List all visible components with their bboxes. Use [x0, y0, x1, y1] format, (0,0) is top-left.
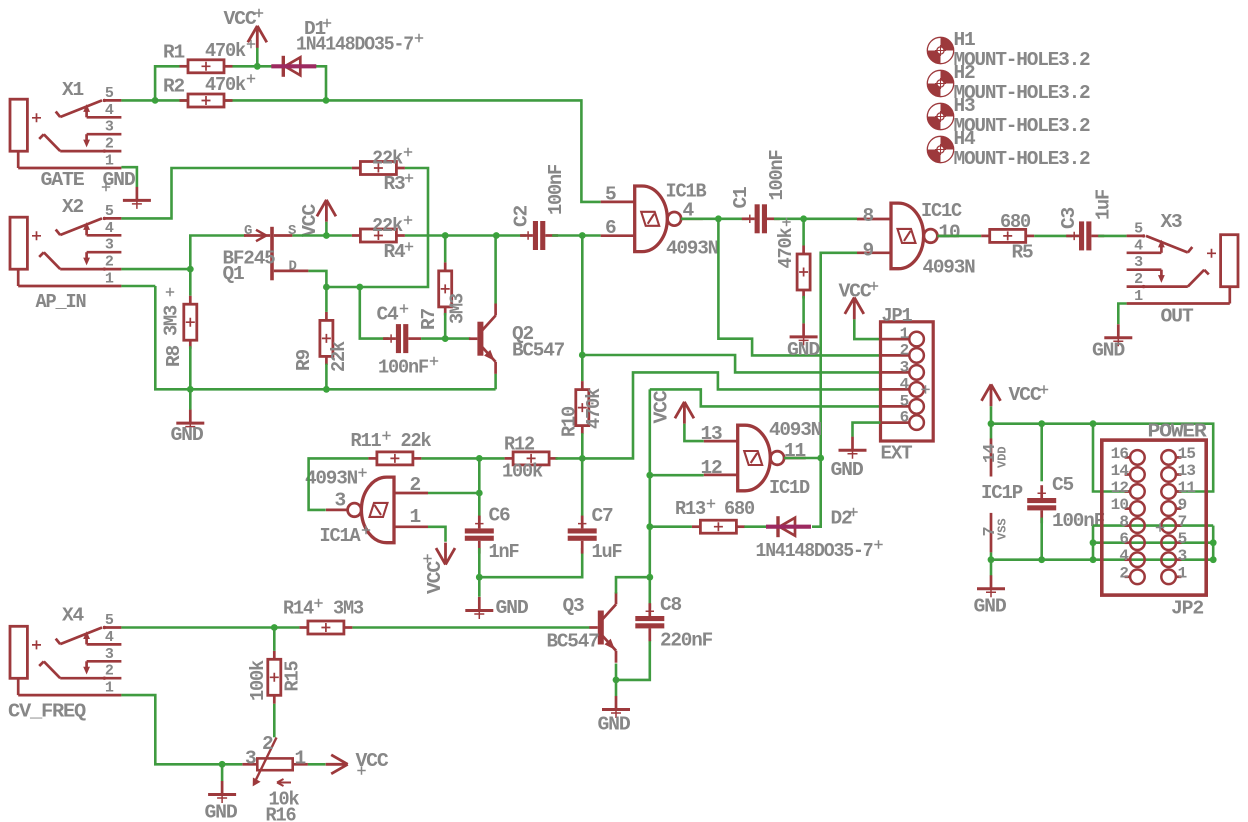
- ground below JP1 pin6 (EXT): [851, 437, 854, 451]
- pin 8 JP2: [1125, 524, 1131, 527]
- resistor R7: [444, 262, 447, 271]
- wire VCC down to rail: [990, 406, 993, 423]
- svg-text:100nF: 100nF: [1052, 510, 1104, 532]
- svg-text:2: 2: [1119, 564, 1128, 582]
- power symbol VCC (IC1A pin1, pointing down): [436, 543, 455, 565]
- svg-text:GND: GND: [1092, 340, 1124, 362]
- ground below R6: [802, 323, 805, 337]
- svg-text:4: 4: [105, 102, 114, 119]
- wire to JP1 pin5: [650, 389, 881, 406]
- origin cross R3 value: [404, 148, 412, 156]
- pin 11 JP2: [1176, 490, 1181, 493]
- svg-text:470k: 470k: [205, 40, 246, 62]
- wire IC1A pin2 net: [428, 492, 479, 495]
- junction C4/R7/base: [442, 335, 449, 342]
- connector X2 body and contacts: [10, 217, 27, 269]
- junction node 287/C4 branch: [356, 284, 363, 291]
- wire Q2 emitter to rail: [494, 374, 497, 389]
- wire GND rail through JP2 pins 4-3: [991, 558, 1213, 561]
- wire Q1 drain down: [308, 271, 326, 287]
- svg-text:220nF: 220nF: [660, 630, 712, 652]
- pin 7 JP2: [1176, 524, 1181, 527]
- power symbol VCC (IC1P): [982, 384, 1001, 406]
- pin 1 JP1: [881, 338, 910, 341]
- svg-text:8: 8: [863, 205, 875, 227]
- svg-text:470k: 470k: [205, 74, 246, 96]
- resistor R1: [180, 65, 189, 68]
- origin cross IC1A value: [358, 468, 366, 476]
- connector X1 body and contacts: [10, 99, 27, 151]
- origin cross VCC JP1: [870, 282, 878, 290]
- svg-text:13: 13: [1178, 462, 1196, 480]
- transistor Q3 (BC547): [598, 611, 604, 645]
- junction VCC/source/R4: [323, 232, 330, 239]
- svg-text:JP1: JP1: [882, 305, 912, 327]
- mount hole H3: [941, 103, 954, 116]
- svg-text:16: 16: [1111, 445, 1129, 463]
- wire JP1 pin6 to GND: [853, 423, 881, 437]
- wire X4.5 to R14: [121, 626, 299, 629]
- svg-text:1: 1: [1134, 288, 1143, 305]
- svg-text:100nF: 100nF: [766, 150, 788, 200]
- wire R15 to R16 wiper: [273, 704, 276, 738]
- svg-text:5: 5: [1134, 220, 1143, 237]
- nand gate IC1A (4093N, mirrored): [361, 477, 394, 543]
- svg-text:1N4148DO35-7: 1N4148DO35-7: [296, 34, 413, 56]
- origin cross VCC IC1P: [1040, 385, 1048, 393]
- wire X2.5 to R3: [121, 168, 352, 218]
- junction rail/R9: [323, 386, 330, 393]
- wire IC1D output to pin9 net: [784, 457, 821, 460]
- wire R16 pin1 to VCC: [308, 763, 326, 766]
- svg-text:100nF: 100nF: [545, 165, 567, 215]
- svg-text:R12: R12: [504, 434, 534, 456]
- svg-text:GND: GND: [787, 339, 819, 361]
- capacitor C6: [478, 516, 481, 529]
- svg-text:680: 680: [1000, 211, 1030, 233]
- svg-text:C1: C1: [730, 187, 752, 208]
- wire to GND symbol: [221, 764, 224, 781]
- origin cross VCC IC1A: [423, 554, 431, 562]
- svg-text:22k: 22k: [328, 341, 350, 372]
- wire to JP2 pin12: [1093, 424, 1131, 492]
- ground below X3: [1117, 324, 1120, 338]
- svg-text:6: 6: [900, 409, 910, 427]
- junction C1/R6: [800, 215, 807, 222]
- svg-text:5: 5: [605, 184, 617, 206]
- pin 2 JP1: [881, 354, 910, 357]
- wire GND rail to C7: [479, 548, 582, 577]
- junction X1.5/R1/R2: [152, 97, 159, 104]
- wire to JP1 pin3: [582, 355, 880, 372]
- svg-text:22k: 22k: [372, 215, 403, 237]
- svg-text:R7: R7: [418, 309, 440, 330]
- pin 5 JP2: [1176, 541, 1181, 544]
- wire IC1C out to R5: [937, 235, 981, 238]
- svg-text:C6: C6: [489, 505, 510, 527]
- wire VCC to source row: [325, 222, 328, 236]
- svg-text:3: 3: [105, 646, 114, 663]
- wire X2.2 to junction: [121, 268, 190, 271]
- pin 4 JP1: [881, 388, 910, 391]
- wire to Q1 gate: [190, 236, 245, 270]
- capacitor C3: [1066, 235, 1079, 238]
- svg-text:EXT: EXT: [881, 443, 913, 465]
- wire X1.5 to junction: [121, 99, 155, 102]
- junction IC1B out / JP1.2 branch: [715, 215, 722, 222]
- svg-text:CV_FREQ: CV_FREQ: [8, 701, 87, 723]
- origin cross R14 name: [314, 599, 322, 607]
- svg-text:VCC: VCC: [224, 8, 258, 30]
- junction JP2 left GND branch: [1090, 556, 1097, 563]
- svg-text:C2: C2: [511, 206, 533, 227]
- svg-text:R13: R13: [675, 498, 705, 520]
- svg-text:IC1D: IC1D: [769, 477, 809, 499]
- svg-text:3: 3: [1178, 547, 1187, 565]
- wire C6 to GND rail: [478, 548, 481, 577]
- svg-text:1: 1: [295, 748, 307, 770]
- svg-text:POWER: POWER: [1148, 421, 1208, 443]
- svg-text:IC1A: IC1A: [320, 525, 361, 547]
- svg-text:C3: C3: [1058, 208, 1080, 229]
- wire R10 to R12 row: [581, 433, 584, 458]
- wire X4.1 to R16 pin3: [121, 695, 242, 764]
- origin cross R4 value: [404, 216, 412, 224]
- junction C5 bottom: [1038, 556, 1045, 563]
- svg-text:R5: R5: [1012, 242, 1033, 264]
- nand gate IC1B (4093N): [635, 186, 668, 252]
- wire R7 to C4 row: [444, 313, 447, 339]
- svg-text:X3: X3: [1161, 211, 1182, 233]
- junction JP2 pin5 row: [1210, 539, 1217, 546]
- power symbol VCC (top): [248, 26, 267, 48]
- resistor R9: [325, 312, 328, 321]
- origin cross D2: [849, 508, 857, 516]
- wire R6 to GND: [802, 296, 805, 324]
- svg-text:4093N: 4093N: [305, 468, 357, 490]
- origin cross R1 value: [247, 40, 255, 48]
- pin 3 JP1: [881, 371, 910, 374]
- svg-text:GND: GND: [974, 596, 1006, 618]
- wire D1 to R2 row: [316, 66, 326, 100]
- svg-text:5: 5: [105, 612, 114, 629]
- origin cross R2 value: [247, 74, 255, 82]
- junction R11/R12/C6: [476, 455, 483, 462]
- wire VSS pin to rail: [990, 552, 993, 559]
- resistor R14: [299, 626, 308, 629]
- junction X4.1/GND/R16: [219, 761, 226, 768]
- svg-text:VCC: VCC: [299, 203, 321, 237]
- capacitor C8: [648, 603, 651, 616]
- origin cross R8 value: [166, 288, 174, 296]
- wire C3 to X3: [1098, 235, 1126, 238]
- wire C5 bottom: [1040, 518, 1043, 560]
- power symbol VCC (R16, pointing right): [326, 755, 348, 774]
- resistor R6: [802, 246, 805, 255]
- origin cross C4 value: [430, 357, 438, 365]
- svg-text:4093N: 4093N: [666, 238, 718, 260]
- wire node 287 down to C4: [360, 287, 389, 339]
- svg-text:H1: H1: [954, 29, 975, 51]
- junction R13: [646, 523, 653, 530]
- pin 14 JP2: [1125, 473, 1131, 476]
- origin cross VCC R16: [357, 766, 365, 774]
- power symbol VCC (Q1 source): [317, 200, 336, 222]
- wire to JP1 pin4: [582, 372, 880, 458]
- svg-text:10: 10: [1111, 496, 1129, 514]
- wire R12 junction down to C7: [581, 458, 584, 521]
- svg-text:3M3: 3M3: [333, 598, 363, 620]
- wire R12 to junction: [556, 457, 583, 460]
- pin 2 JP2: [1125, 575, 1131, 578]
- svg-text:470k: 470k: [775, 227, 797, 268]
- svg-text:3M3: 3M3: [161, 306, 183, 336]
- wire Q3 collector to C8 junction: [616, 577, 650, 593]
- svg-text:R9: R9: [293, 350, 315, 371]
- wire X2.1 ground rail: [155, 286, 495, 389]
- origin cross JP2: [1156, 523, 1164, 531]
- svg-text:1uF: 1uF: [1093, 190, 1115, 220]
- svg-text:1: 1: [105, 153, 114, 170]
- wire up to R1: [155, 66, 179, 100]
- svg-text:100k: 100k: [247, 660, 269, 701]
- svg-text:GND: GND: [598, 714, 630, 736]
- svg-text:3M3: 3M3: [447, 294, 469, 324]
- svg-text:X4: X4: [62, 605, 84, 627]
- wire R9 to ground rail: [325, 364, 328, 390]
- svg-text:IC1C: IC1C: [921, 200, 962, 222]
- wire IC1B output to C1: [681, 218, 748, 221]
- pin 9 JP2: [1176, 507, 1181, 510]
- origin cross VCC top: [255, 9, 263, 17]
- ground below X2 rail: [189, 410, 192, 424]
- svg-text:5: 5: [1178, 530, 1187, 548]
- origin cross JP1: [921, 385, 929, 393]
- resistor R5: [981, 235, 990, 238]
- resistor R12: [505, 457, 513, 460]
- junction D1/R2 row: [323, 97, 330, 104]
- junction X2.2/R8/gate: [187, 266, 194, 273]
- pin 13 JP2: [1176, 473, 1181, 476]
- wire junction down to C8: [648, 577, 651, 609]
- junction C2 out / feedback: [579, 232, 586, 239]
- origin cross D1 value: [415, 34, 423, 42]
- svg-text:13: 13: [701, 423, 722, 445]
- wire to GND symbol: [615, 680, 618, 696]
- svg-text:100k: 100k: [502, 461, 543, 483]
- svg-text:2: 2: [262, 733, 274, 755]
- wire Q3 emitter down: [615, 664, 618, 680]
- svg-text:GND: GND: [496, 597, 528, 619]
- mount hole H4: [941, 136, 954, 149]
- pin 4 JP2: [1125, 558, 1131, 561]
- svg-text:1nF: 1nF: [489, 541, 519, 563]
- svg-text:X1: X1: [62, 79, 83, 101]
- ground below Q3: [615, 696, 618, 710]
- svg-text:4: 4: [1119, 547, 1129, 565]
- svg-text:R10: R10: [559, 407, 581, 437]
- svg-text:3: 3: [900, 358, 910, 376]
- svg-text:R15: R15: [282, 661, 304, 691]
- wire R13 to D2: [744, 525, 766, 528]
- svg-text:4: 4: [1134, 237, 1143, 254]
- junction R10/R12/JP1.4: [579, 455, 586, 462]
- svg-text:4093N: 4093N: [923, 257, 975, 279]
- wire VCC rail to JP2 pin11: [991, 424, 1213, 492]
- svg-text:X2: X2: [62, 196, 83, 218]
- wire R8 to ground rail: [189, 346, 192, 389]
- svg-text:C5: C5: [1052, 474, 1073, 496]
- wire IC1D.12/R13 vertical: [648, 389, 651, 577]
- svg-text:2: 2: [410, 474, 422, 496]
- wire junction to R13: [650, 525, 692, 528]
- svg-text:3: 3: [245, 748, 257, 770]
- svg-text:C8: C8: [660, 594, 681, 616]
- capacitor C7: [581, 516, 584, 529]
- connector JP2 box: [1102, 440, 1206, 595]
- svg-text:4: 4: [900, 375, 910, 393]
- mount hole H1: [941, 37, 954, 50]
- svg-text:R14: R14: [283, 598, 314, 620]
- nand gate IC1C (4093N): [891, 203, 924, 269]
- ground below IC1P: [990, 575, 993, 589]
- svg-text:3: 3: [1134, 254, 1143, 271]
- wire C2 to IC1B pin6: [552, 234, 601, 237]
- power symbol VCC (JP1): [845, 297, 864, 319]
- svg-text:7: 7: [1178, 513, 1187, 531]
- wire IC1B out to JP1 pin2: [718, 219, 880, 356]
- wire C1 to IC1C pin8: [774, 218, 857, 221]
- wire R1 to D1: [233, 65, 273, 68]
- wire R4 row to R7: [444, 236, 447, 263]
- capacitor C4: [383, 337, 396, 340]
- svg-text:D: D: [289, 259, 297, 275]
- svg-text:100nF: 100nF: [378, 357, 428, 379]
- svg-text:4093N: 4093N: [769, 419, 821, 441]
- svg-text:H4: H4: [954, 128, 976, 150]
- svg-text:IC1P: IC1P: [981, 482, 1022, 504]
- svg-text:R2: R2: [163, 76, 184, 98]
- connector JP1 box: [881, 322, 934, 441]
- svg-text:8: 8: [1119, 513, 1128, 531]
- wire X3.1 to GND: [1118, 304, 1126, 325]
- junction X4.5/R14/R15: [271, 624, 278, 631]
- wire rail to VDD pin: [990, 424, 993, 439]
- svg-text:12: 12: [1111, 479, 1129, 497]
- svg-text:22k: 22k: [372, 148, 403, 170]
- svg-text:1: 1: [410, 506, 422, 528]
- svg-text:1: 1: [1178, 564, 1187, 582]
- svg-text:3: 3: [105, 119, 114, 136]
- wire rail to GND symbol: [189, 389, 192, 410]
- transistor Q2 (BC547): [477, 322, 483, 356]
- power part IC1P VDD pin: [990, 439, 993, 477]
- origin cross R13 name: [707, 499, 715, 507]
- junction Q2 collector: [493, 232, 500, 239]
- svg-text:2: 2: [105, 136, 114, 153]
- svg-text:9: 9: [1178, 496, 1187, 514]
- junction VSS/GND rail: [988, 556, 995, 563]
- wire to R9 top: [325, 287, 328, 312]
- connector X4 body and contacts: [10, 626, 27, 678]
- junction drain/R9: [323, 284, 330, 291]
- wire junction to R15: [273, 628, 276, 651]
- origin cross D1: [323, 19, 331, 27]
- junction JP2 pin6 row: [1090, 539, 1097, 546]
- junction C8/Q3 collector: [646, 574, 653, 581]
- junction pin9 net / IC1D output: [817, 455, 824, 462]
- svg-text:VSS: VSS: [996, 518, 1010, 540]
- origin cross R3 name: [405, 174, 413, 182]
- capacitor C2: [520, 234, 533, 237]
- resistor R3: [352, 167, 361, 170]
- mount hole H2: [941, 70, 954, 83]
- svg-text:12: 12: [701, 457, 722, 479]
- pin 6 JP1: [881, 421, 910, 424]
- junction JP2 pin12 branch: [1090, 420, 1097, 427]
- wire JP2 pins 7/5/3 branch: [1212, 526, 1215, 560]
- wire C2 node down: [581, 236, 584, 356]
- svg-text:1uF: 1uF: [592, 541, 622, 563]
- svg-text:GATE: GATE: [41, 169, 85, 191]
- wire IC1A pin1 to VCC: [428, 527, 446, 542]
- svg-text:R11: R11: [351, 430, 381, 452]
- svg-text:R1: R1: [163, 42, 184, 64]
- origin cross D2 value: [874, 540, 882, 548]
- resistor R10: [581, 381, 584, 390]
- junction pin2/C6 branch: [476, 490, 483, 497]
- svg-text:15: 15: [1178, 445, 1196, 463]
- resistor R11: [368, 457, 377, 460]
- svg-text:2: 2: [900, 341, 910, 359]
- pin 1 JP2: [1176, 575, 1181, 578]
- wire down to GND symbol: [478, 577, 481, 597]
- junction VCC rail: [988, 420, 995, 427]
- origin cross R4 name: [405, 242, 413, 250]
- junction R1/D1/VCC: [254, 63, 261, 70]
- ground below X1: [136, 187, 139, 201]
- svg-text:R16: R16: [266, 805, 296, 822]
- svg-text:Q3: Q3: [563, 595, 584, 617]
- wire JP2 pins 8-7 row: [1093, 524, 1213, 527]
- svg-text:1N4148DO35-7: 1N4148DO35-7: [756, 540, 873, 562]
- capacitor C5: [1040, 485, 1043, 498]
- svg-text:GND: GND: [831, 459, 863, 481]
- svg-text:Q1: Q1: [223, 263, 244, 285]
- svg-text:6: 6: [1119, 530, 1128, 548]
- svg-text:470k: 470k: [583, 388, 605, 429]
- svg-text:14: 14: [1111, 462, 1130, 480]
- capacitor C1: [742, 217, 755, 220]
- svg-text:11: 11: [1178, 479, 1196, 497]
- wire to GND symbol: [990, 560, 993, 576]
- svg-text:JP2: JP2: [1171, 598, 1203, 620]
- wire JP2 pins 6-5 row: [1093, 541, 1213, 544]
- wire R5 to C3: [1034, 235, 1072, 238]
- svg-text:VCC: VCC: [424, 560, 446, 594]
- resistor R13: [692, 525, 701, 528]
- wire X2.1 stub join: [121, 285, 155, 288]
- wire down to R10: [581, 355, 584, 381]
- svg-text:2: 2: [105, 663, 114, 680]
- svg-text:C4: C4: [377, 304, 399, 326]
- wire C4 to Q2 base: [421, 337, 470, 340]
- pin 16 JP2: [1125, 456, 1131, 459]
- junction R4/R7: [442, 232, 449, 239]
- origin cross IC1A name: [362, 526, 370, 534]
- wire R2 row to IC1B pin5: [155, 100, 601, 201]
- svg-text:VCC: VCC: [839, 281, 873, 303]
